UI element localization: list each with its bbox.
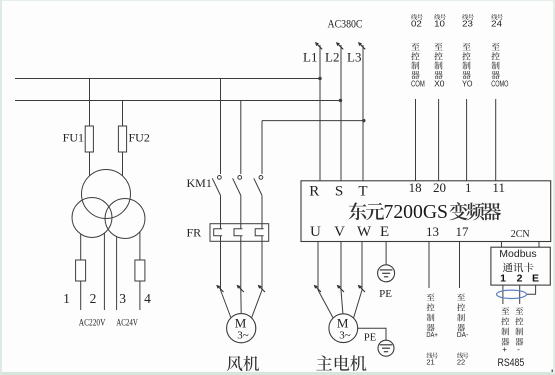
main motor lead right — [354, 290, 363, 318]
control column RS485 - — [515, 307, 523, 314]
arrow on fan lead — [259, 286, 265, 292]
control column 23/YO — [462, 14, 468, 20]
wire Modbus pin2 — [519, 285, 521, 304]
FR heater element — [255, 229, 263, 236]
wire L1 vertical — [319, 45, 321, 181]
wire Modbus pin1 — [502, 285, 504, 304]
wire FU2 to transformer — [122, 152, 124, 176]
arrow on main motor lead — [359, 286, 365, 292]
contactor KM1 — [218, 176, 222, 180]
control column DA 21 — [427, 293, 435, 300]
label fan (feng ji) — [227, 356, 243, 371]
arrow on main motor lead — [315, 286, 321, 292]
motor M1 fan — [227, 314, 256, 343]
control column DA 22 — [457, 293, 465, 300]
wire secondary 3 — [116, 237, 118, 311]
fuse FU2 — [118, 126, 126, 152]
transformer T1 secondary winding b — [105, 199, 145, 239]
wire FR to fan lead — [240, 241, 242, 290]
bus L1 horizontal — [15, 78, 320, 80]
control column 24/COMO — [491, 14, 497, 20]
main motor lead left — [318, 290, 333, 318]
fuse on secondary 4 — [135, 260, 145, 281]
control column RS485 + — [501, 307, 509, 314]
node bus3/L3 junction — [362, 119, 365, 122]
wire E to PE — [385, 242, 387, 265]
inverter title dong yuan 7200GS bian pin qi — [349, 202, 367, 220]
wire terminal 22 — [459, 242, 461, 289]
control column 02/COM — [411, 14, 417, 20]
control column 10/X0 — [434, 14, 440, 20]
wire KM1 pole1 from bus1 — [220, 79, 222, 175]
wire U to motor — [317, 242, 319, 291]
arrow mark L1 — [317, 44, 323, 50]
fan lead left angled — [221, 290, 232, 318]
inverter box TECO 7200GS — [301, 181, 551, 242]
wire FR to fan lead — [261, 241, 263, 290]
wire FU2 drop — [122, 101, 124, 127]
node bus2/L2 junction — [339, 99, 342, 102]
wire secondary 4 — [139, 232, 141, 310]
wire FR to fan lead — [220, 241, 222, 290]
transformer T1 secondary winding a — [72, 198, 112, 238]
arrow on fan lead — [218, 286, 224, 292]
bus L2 horizontal — [15, 100, 341, 102]
wire secondary 1 — [80, 234, 82, 310]
arrow on fan lead — [238, 286, 244, 292]
label main motor (zhu dian ji) — [316, 355, 332, 370]
wire L3 vertical — [362, 45, 364, 181]
wire KM1 pole3 from bus3 — [261, 121, 263, 174]
arrow mark L2 — [338, 44, 344, 50]
arrow mark L3 — [360, 44, 366, 50]
motor M2 main — [329, 314, 358, 343]
wire motor frame to PE2 — [358, 328, 386, 340]
transformer T1 primary winding — [82, 170, 131, 219]
wire terminal 21 — [428, 242, 430, 289]
fan lead right angled — [252, 290, 263, 318]
Modbus communication card — [491, 247, 550, 285]
earth PE2 — [378, 340, 394, 356]
main motor lead mid — [341, 290, 343, 314]
wire secondary 2 — [103, 233, 105, 310]
fan lead mid — [240, 290, 242, 314]
wire W to motor — [361, 242, 363, 291]
FR heater element — [214, 229, 222, 236]
fuse on secondary 1 — [76, 260, 86, 281]
wire Modbus pinE shield — [527, 285, 536, 294]
wire KM1 pole2 from bus2 — [240, 101, 242, 175]
wire FU1 drop — [89, 79, 91, 127]
wire FU1 to transformer — [89, 152, 91, 176]
arrow on main motor lead — [338, 286, 344, 292]
earth PE1 — [378, 265, 395, 282]
corner resize dot — [552, 370, 555, 373]
wire V to motor — [340, 242, 342, 291]
wire 2CN left — [501, 242, 503, 248]
wire L2 vertical — [340, 45, 342, 181]
node bus1/L1 junction — [318, 77, 321, 80]
thermal relay FR box — [210, 224, 269, 242]
bus L3 horizontal — [262, 120, 364, 122]
fuse FU1 — [85, 126, 93, 152]
wire 2CN right — [538, 242, 540, 248]
cable shield ellipse — [497, 290, 527, 298]
FR heater element — [234, 229, 242, 236]
